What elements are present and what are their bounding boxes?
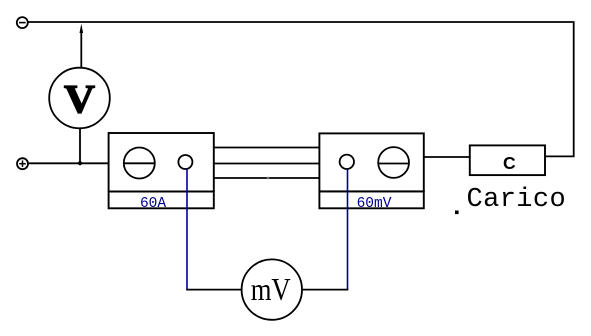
svg-text:Carico: Carico (467, 185, 567, 215)
svg-text:60A: 60A (140, 196, 166, 212)
svg-text:60mV: 60mV (357, 196, 392, 212)
svg-text:C: C (503, 153, 516, 173)
svg-text:V: V (64, 77, 95, 122)
svg-text:mV: mV (251, 272, 291, 307)
